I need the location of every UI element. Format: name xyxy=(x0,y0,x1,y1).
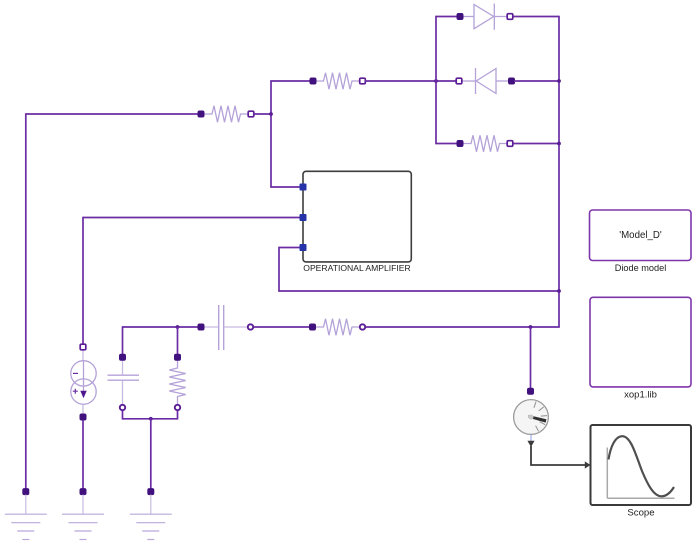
port R3 right (open) xyxy=(507,141,513,147)
svg-text:'Model_D': 'Model_D' xyxy=(619,230,662,241)
port D2 left (open) xyxy=(456,78,462,84)
wire R2 to diode D2 input xyxy=(365,80,456,82)
port ground 3 (filled) xyxy=(148,489,154,495)
signal wire gauge to scope xyxy=(527,435,590,469)
resistor R3 xyxy=(463,135,509,151)
wire feedback horizontal to right bus xyxy=(278,290,559,292)
resistor R4 xyxy=(315,319,359,335)
wire V6 feedback vertical xyxy=(278,247,280,291)
wire V3 bottom to R3 xyxy=(435,143,457,145)
wire W1 horizontal from left corner to R1 xyxy=(26,113,199,115)
wire V2 bottom to op-amp input 1 xyxy=(270,186,301,188)
port C2 right (open circle) xyxy=(248,324,253,329)
wire V5 vertical down to current source xyxy=(82,217,84,344)
port ground 2 (filled) xyxy=(80,489,86,495)
block xop1.lib xyxy=(590,297,691,387)
svg-text:OPERATIONAL AMPLIFIER: OPERATIONAL AMPLIFIER xyxy=(303,263,410,273)
wire W1 vertical down left side to ground 1 xyxy=(25,113,27,489)
port R4 right (open circle) xyxy=(360,324,365,329)
port D2 right (filled) xyxy=(509,78,515,84)
port I1 bottom (filled) xyxy=(80,414,86,420)
wire op-amp input 3 stub xyxy=(279,247,301,249)
junction D2 right bus xyxy=(557,79,561,83)
block Diode model xyxy=(590,210,692,261)
wire R4 to right bus end xyxy=(366,326,560,328)
port U1 pin2 (blue) xyxy=(300,214,307,221)
wire I1 to ground 2 xyxy=(82,420,84,489)
wire V2 top to R2 xyxy=(270,80,311,82)
junction V2/R1 xyxy=(269,112,273,116)
capacitor C1 (shunt branch) xyxy=(108,360,140,404)
wire V3 top to D1 xyxy=(435,16,458,18)
op-amp U1 xyxy=(303,171,411,262)
port gauge (filled) xyxy=(528,388,534,394)
port C1 top (filled) xyxy=(120,354,126,360)
port ground 1 (filled) xyxy=(23,489,29,495)
resistor R1 xyxy=(203,106,249,122)
wire resistor branch stub down xyxy=(177,327,179,355)
diode D1 xyxy=(463,4,508,30)
resistor R5 (shunt branch) xyxy=(169,360,185,404)
port U1 pin1 (blue) xyxy=(300,184,307,191)
voltage sensor gauge xyxy=(514,400,549,435)
capacitor C2 (series) xyxy=(204,305,248,350)
ground 1 xyxy=(5,495,47,540)
wire V2 vertical xyxy=(270,81,272,187)
wire main row cap stub down xyxy=(122,326,124,354)
wire RC bottom U xyxy=(123,411,178,419)
port R1 left (filled) xyxy=(198,111,204,117)
diode D2 xyxy=(462,68,509,94)
wire R1 to node V2 xyxy=(253,113,271,115)
port D1 right (open) xyxy=(507,14,513,20)
wire D2 to right bus xyxy=(514,80,559,82)
junction diode bus left xyxy=(434,79,438,83)
block Scope xyxy=(591,425,692,505)
ground 2 xyxy=(62,495,104,540)
port R3 left (filled) xyxy=(457,141,463,147)
port R2 right (open) xyxy=(360,78,366,84)
port D1 left (filled) xyxy=(457,14,463,20)
port R5 top (filled) xyxy=(175,354,181,360)
port R2 left (filled) xyxy=(310,78,316,84)
wire gauge branch vertical xyxy=(530,327,532,389)
current source I1 xyxy=(71,350,96,414)
wire D1 to right bus xyxy=(513,16,559,18)
port R4 left (filled) xyxy=(310,324,316,330)
svg-text:Scope: Scope xyxy=(627,508,654,519)
port U1 pin3 (blue) xyxy=(300,244,307,251)
wire V3 diode bank left bus xyxy=(435,17,437,144)
svg-text:xop1.lib: xop1.lib xyxy=(624,390,657,401)
junction main row resistor branch xyxy=(176,325,180,329)
wire C2 to R4 xyxy=(254,326,310,328)
wire V4 right bus xyxy=(558,16,560,327)
junction gauge branch xyxy=(529,325,533,329)
junction R3 right bus xyxy=(557,142,561,146)
scope curve xyxy=(609,436,675,496)
wire R3 to right bus xyxy=(513,143,559,145)
resistor R2 xyxy=(315,73,361,89)
junction feedback right bus xyxy=(557,289,561,293)
port C1 bottom (open circle) xyxy=(120,405,125,410)
wire op-amp input 2 from left node xyxy=(83,217,301,219)
junction RC bottom xyxy=(149,417,153,421)
port R5 bottom (open circle) xyxy=(175,405,180,410)
port I1 top (open) xyxy=(80,344,86,350)
ground 3 xyxy=(130,495,172,540)
port C2 left (filled) xyxy=(198,324,204,330)
wire RC bottom to ground 3 xyxy=(150,419,152,489)
svg-text:Diode model: Diode model xyxy=(615,263,667,273)
port R1 right (open) xyxy=(248,111,254,117)
wire main row left segment xyxy=(123,326,200,328)
scope axes xyxy=(607,448,674,499)
